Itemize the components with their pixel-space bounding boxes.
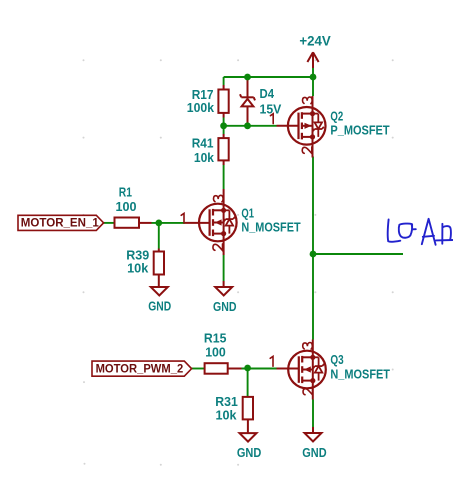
svg-text:10k: 10k	[127, 261, 149, 276]
junction node load branch	[310, 251, 317, 258]
pin 2 source lead	[223, 234, 225, 255]
junction node rail/+24V	[310, 74, 317, 81]
wire Q2 source to Q3 drain	[312, 157, 314, 340]
body diode	[313, 356, 319, 358]
global label MOTOR_EN_1	[18, 215, 104, 230]
svg-text:D4: D4	[260, 86, 275, 101]
junction node R1/R39	[155, 220, 162, 227]
node LOAD annotation (handwritten)	[388, 219, 453, 245]
junction node R17/R41	[220, 122, 227, 129]
junction node D4 anode	[244, 122, 251, 129]
svg-text:GND: GND	[237, 445, 261, 460]
svg-text:R1: R1	[119, 185, 132, 200]
wire node to R39	[158, 223, 160, 249]
source stub + dot	[302, 136, 313, 138]
pin 1 gate lead	[277, 125, 299, 127]
resistor R15	[204, 331, 242, 374]
wire label MOTOR_EN_1 to R1	[103, 222, 115, 224]
source stub + dot	[302, 380, 313, 382]
ground under R31	[237, 433, 261, 460]
svg-text:100: 100	[205, 345, 226, 360]
svg-text:MOTOR_EN_1: MOTOR_EN_1	[21, 217, 100, 230]
body diode	[224, 209, 230, 211]
wire R15 to Q3 gate	[242, 368, 277, 370]
channel segments	[212, 209, 214, 216]
gate bar	[298, 356, 300, 383]
ground under Q3	[302, 427, 326, 460]
svg-text:Q3: Q3	[330, 352, 343, 367]
pin 1 gate lead	[185, 222, 210, 224]
pin number 2	[302, 147, 312, 154]
pin 3 drain lead	[223, 189, 225, 210]
wire R41 bottom to Q1 drain	[223, 165, 225, 189]
junction node rail/D4	[244, 74, 251, 81]
channel segments	[301, 112, 303, 119]
ground under R39	[148, 287, 171, 314]
pin number 2	[303, 388, 313, 395]
svg-text:GND: GND	[302, 445, 326, 460]
pin number 1	[270, 114, 273, 124]
internal vertical	[312, 114, 314, 137]
svg-text:15V: 15V	[260, 102, 282, 117]
wire R17 top	[223, 77, 225, 85]
svg-text:100: 100	[116, 199, 137, 214]
pin 3 drain lead	[312, 340, 314, 358]
drain stub + dot	[302, 113, 313, 115]
pin 2 source lead	[312, 137, 314, 158]
pin number 1	[270, 356, 273, 366]
svg-text:Q2: Q2	[330, 108, 343, 123]
svg-text:MOTOR_PWM_2: MOTOR_PWM_2	[96, 363, 184, 376]
power +24V	[307, 52, 318, 68]
substrate arrow (points left for N)	[302, 369, 313, 371]
drain stub + dot	[213, 209, 224, 211]
resistor R17	[187, 85, 229, 118]
pin number 1	[181, 213, 184, 223]
source stub + dot	[213, 233, 224, 235]
gate bar	[209, 209, 211, 236]
resistor R39	[126, 247, 164, 287]
pin number 3	[303, 97, 313, 104]
svg-text:GND: GND	[213, 299, 237, 314]
svg-text:+24V: +24V	[299, 34, 330, 49]
wire label MOTOR_PWM_2 to R15	[191, 368, 206, 370]
resistor R1	[115, 185, 152, 228]
svg-text:R15: R15	[204, 331, 227, 346]
wire load branch	[313, 253, 403, 255]
svg-text:10k: 10k	[194, 150, 215, 165]
pin 3 drain lead	[312, 96, 314, 114]
global label MOTOR_PWM_2	[92, 361, 192, 376]
substrate arrow (points right for P)	[302, 125, 313, 127]
ground under Q1	[213, 281, 237, 314]
wire Q1 source to GND	[223, 255, 225, 281]
wire node to R31	[247, 369, 249, 398]
svg-text:100k: 100k	[187, 100, 215, 115]
wire top rail horizontal	[224, 76, 313, 78]
svg-text:10k: 10k	[216, 408, 238, 423]
internal vertical	[312, 357, 314, 380]
wire +24V stub	[312, 68, 314, 78]
gate bar	[297, 113, 299, 140]
svg-text:N_MOSFET: N_MOSFET	[330, 366, 390, 381]
pin number 3	[214, 195, 224, 202]
pin 1 gate lead	[277, 368, 299, 370]
svg-text:N_MOSFET: N_MOSFET	[241, 220, 300, 235]
body diode	[313, 113, 319, 115]
pin number 2	[213, 244, 223, 251]
wire R1 to Q1 gate	[152, 222, 186, 224]
transistor Q3 N-MOSFET	[270, 340, 390, 400]
svg-text:GND: GND	[148, 299, 171, 314]
wire node to R41 top	[223, 126, 225, 134]
wire Q3 source to GND	[312, 400, 314, 428]
drain stub + dot	[302, 356, 313, 358]
internal vertical	[223, 210, 225, 233]
zener diode D4	[240, 77, 255, 126]
wire node to Q2 gate	[224, 125, 277, 127]
wire rail to Q2 drain	[312, 77, 314, 96]
svg-text:P_MOSFET: P_MOSFET	[330, 122, 389, 137]
svg-text:Q1: Q1	[241, 206, 254, 221]
transistor Q2 P-MOSFET	[270, 96, 389, 158]
pin number 3	[303, 343, 313, 350]
resistor R31	[215, 394, 253, 433]
transistor Q1 N-MOSFET	[181, 189, 300, 255]
junction node R15/R31	[244, 365, 251, 372]
substrate arrow (points left for N)	[213, 222, 224, 224]
resistor R41	[192, 134, 229, 165]
channel segments	[301, 356, 303, 363]
pin 2 source lead	[312, 381, 314, 400]
svg-text:R41: R41	[192, 135, 214, 150]
wire R17 bottom to node	[223, 117, 225, 125]
